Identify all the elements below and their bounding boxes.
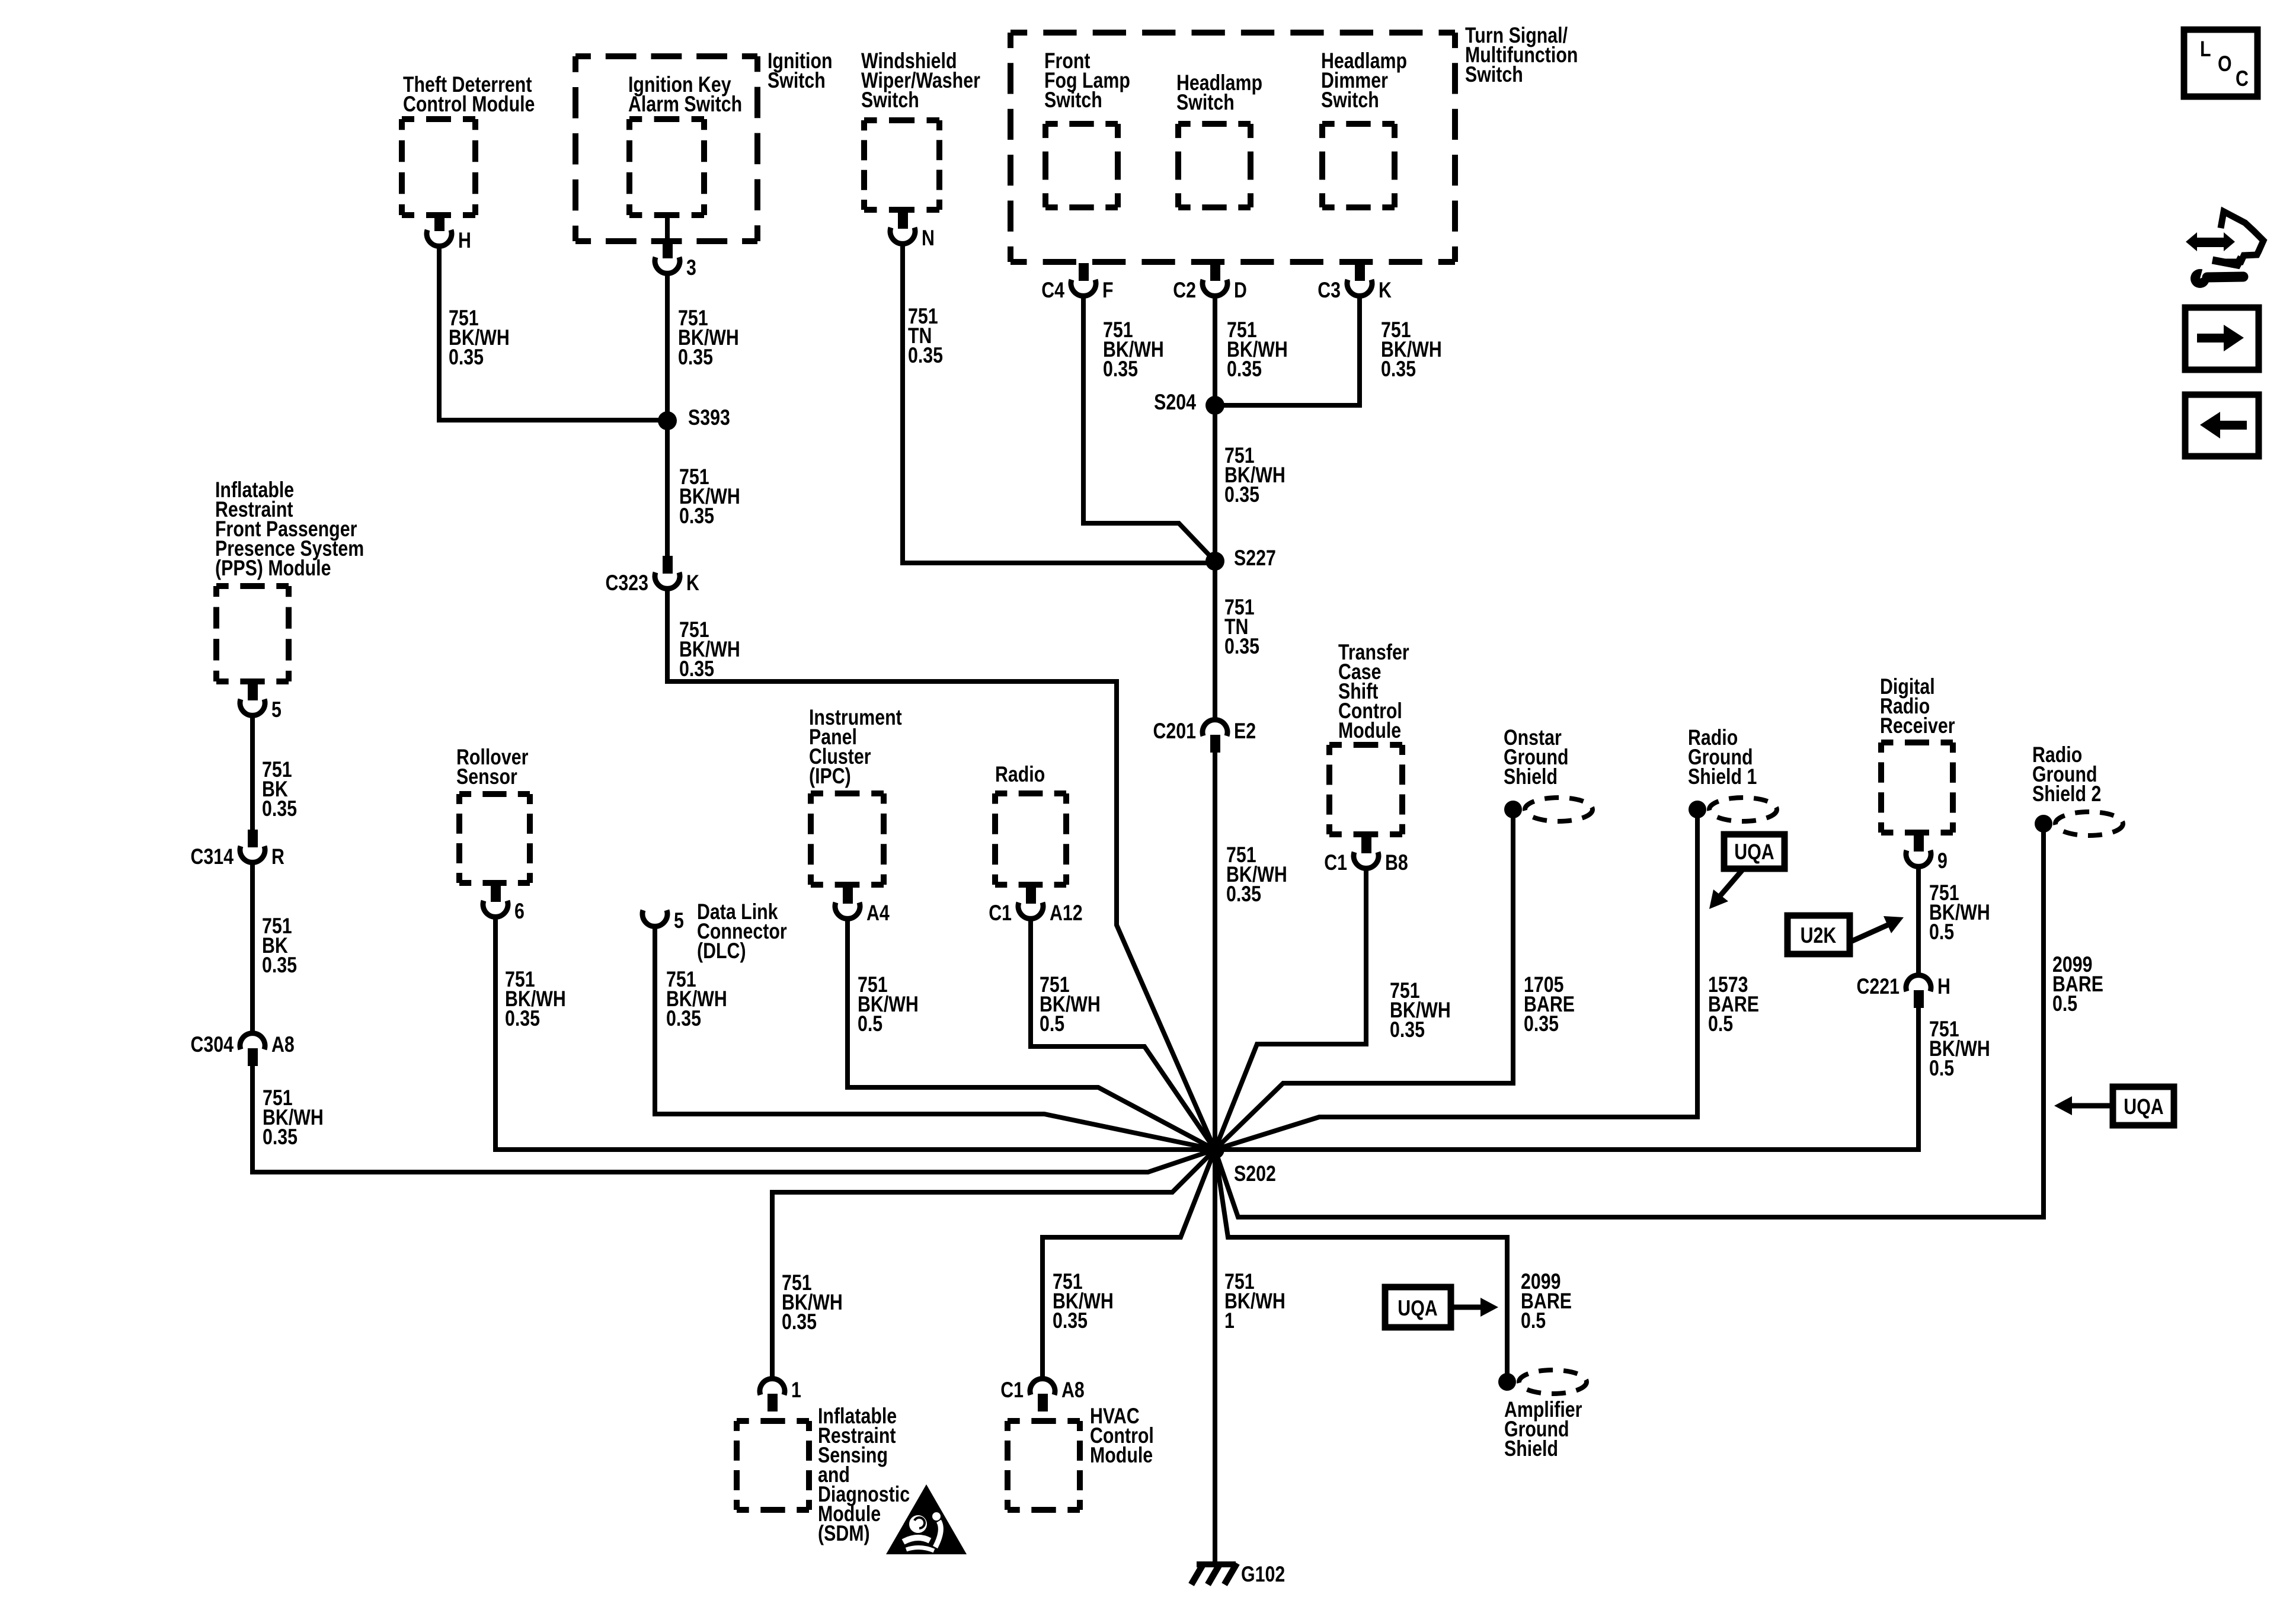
svg-text:S202: S202 <box>1234 1161 1276 1186</box>
svg-text:0.5: 0.5 <box>1708 1012 1733 1036</box>
svg-text:6: 6 <box>514 899 525 924</box>
svg-text:C4: C4 <box>1041 278 1064 303</box>
connector C1 pin A8 HVAC <box>1030 1379 1055 1395</box>
svg-text:Switch: Switch <box>1044 88 1102 113</box>
ground shield Onstar <box>1504 801 1522 818</box>
svg-text:C3: C3 <box>1318 278 1341 303</box>
svg-text:Switch: Switch <box>768 68 826 93</box>
wire C221 to S202 <box>1215 1006 1918 1150</box>
svg-text:C1: C1 <box>1324 850 1347 875</box>
svg-text:UQA: UQA <box>1398 1296 1437 1321</box>
svg-text:Switch: Switch <box>861 88 919 113</box>
svg-text:Shield: Shield <box>1504 764 1558 789</box>
svg-text:D: D <box>1234 278 1247 303</box>
svg-text:0.5: 0.5 <box>1929 920 1954 945</box>
svg-text:0.35: 0.35 <box>505 1006 540 1031</box>
svg-text:G102: G102 <box>1241 1562 1285 1587</box>
connector C201 pin E2 <box>1203 720 1227 736</box>
splice S202 <box>1205 1140 1224 1159</box>
wire transfer B8 to S202 <box>1215 869 1366 1150</box>
svg-text:A4: A4 <box>866 901 890 926</box>
svg-text:S204: S204 <box>1154 390 1196 415</box>
svg-text:K: K <box>1379 278 1392 303</box>
svg-text:(DLC): (DLC) <box>697 939 746 964</box>
svg-text:C323: C323 <box>605 571 648 596</box>
box Digital Radio Receiver <box>1881 742 1953 833</box>
svg-text:Switch: Switch <box>1321 88 1379 113</box>
svg-text:Shield 1: Shield 1 <box>1688 764 1757 789</box>
svg-text:Alarm Switch: Alarm Switch <box>628 92 742 117</box>
wire C201 to S202 <box>1213 751 1217 1150</box>
svg-text:0.35: 0.35 <box>1053 1308 1088 1333</box>
arrow U2K to DRR wire <box>1852 925 1888 941</box>
wire S202 to SDM <box>772 1150 1215 1379</box>
wire DLC to S202 <box>655 926 1215 1150</box>
box Headlamp Switch <box>1178 124 1251 207</box>
svg-text:B8: B8 <box>1385 850 1408 875</box>
callout UQA near radio ground shield 1 <box>1724 834 1785 869</box>
connector C2 pin D headlamp <box>1210 263 1220 281</box>
svg-text:0.5: 0.5 <box>1040 1012 1064 1036</box>
connector C221 pin H <box>1906 975 1931 991</box>
connector C323 pin K <box>663 556 673 574</box>
connector pin H theft module <box>434 213 445 231</box>
wire radio A12 to S202 <box>1031 919 1215 1150</box>
svg-text:A8: A8 <box>1061 1378 1085 1403</box>
svg-text:5: 5 <box>271 697 282 722</box>
box SDM <box>737 1421 809 1510</box>
svg-text:Radio: Radio <box>995 762 1045 787</box>
callout UQA near amplifier <box>1385 1287 1451 1327</box>
svg-text:9: 9 <box>1937 849 1948 873</box>
box Windshield Wiper/Washer Switch <box>864 120 939 210</box>
svg-text:C1: C1 <box>1000 1378 1024 1403</box>
svg-text:0.35: 0.35 <box>782 1310 817 1334</box>
wire DRR 9 to C221 <box>1916 867 1921 975</box>
splice S227 <box>1205 552 1224 571</box>
svg-text:U2K: U2K <box>1801 923 1837 948</box>
svg-text:0.35: 0.35 <box>1103 357 1138 382</box>
svg-text:H: H <box>1937 974 1950 999</box>
svg-text:0.35: 0.35 <box>679 657 714 681</box>
callout U2K <box>1787 916 1850 954</box>
svg-text:Module: Module <box>1338 718 1401 743</box>
svg-text:C221: C221 <box>1856 974 1900 999</box>
svg-text:0.35: 0.35 <box>1381 357 1416 382</box>
box PPS Module <box>216 586 289 681</box>
connector C314 pin R <box>248 830 258 847</box>
wire onstar shield to S202 <box>1215 818 1513 1150</box>
wire IPC A4 to S202 <box>848 919 1215 1150</box>
arrow UQA to radio ground shield 2 wire <box>2072 1103 2113 1109</box>
arrow UQA to amplifier wire <box>1451 1305 1480 1310</box>
ground shield Radio 2 <box>2035 815 2052 833</box>
box Instrument Panel Cluster <box>811 793 884 885</box>
svg-text:0.35: 0.35 <box>449 345 484 370</box>
wire theft H to S393 <box>439 247 667 420</box>
svg-text:Sensor: Sensor <box>456 764 517 789</box>
ground shield Amplifier <box>1498 1373 1516 1391</box>
box Turn Signal/Multifunction Switch outer <box>1011 33 1455 262</box>
svg-text:Shield 2: Shield 2 <box>2032 782 2101 806</box>
box Headlamp Dimmer Switch <box>1322 124 1395 207</box>
wire S202 to HVAC <box>1043 1150 1215 1379</box>
splice S204 <box>1205 396 1224 415</box>
svg-text:UQA: UQA <box>2124 1094 2163 1119</box>
box Front Fog Lamp Switch <box>1045 124 1118 207</box>
legend box arrow left <box>2185 395 2259 456</box>
wire rollover 6 to S202 <box>495 917 1215 1150</box>
svg-text:Switch: Switch <box>1465 62 1523 87</box>
svg-text:0.35: 0.35 <box>666 1006 701 1031</box>
svg-text:(IPC): (IPC) <box>809 764 851 789</box>
svg-text:H: H <box>458 228 471 253</box>
box Rollover Sensor <box>459 794 530 883</box>
wire dimmer K to S204 <box>1215 296 1360 405</box>
callout UQA near radio ground shield 2 <box>2113 1087 2174 1125</box>
wire S202 to amplifier shield <box>1215 1150 1507 1374</box>
connector C304 pin A8 <box>240 1033 265 1049</box>
svg-text:0.35: 0.35 <box>262 796 297 821</box>
box HVAC Control Module <box>1008 1421 1080 1510</box>
wire S202 to G102 <box>1213 1150 1217 1564</box>
connector pin 6 rollover <box>491 884 501 902</box>
svg-text:5: 5 <box>674 908 684 933</box>
connector C1 pin B8 transfer case <box>1361 836 1371 853</box>
svg-text:0.35: 0.35 <box>1227 357 1262 382</box>
ground G102 <box>1197 1561 1236 1567</box>
svg-text:C1: C1 <box>989 901 1012 926</box>
svg-text:K: K <box>686 571 699 596</box>
wire C304 to S202 <box>252 1064 1215 1172</box>
svg-text:1: 1 <box>1224 1308 1235 1333</box>
svg-text:L: L <box>2200 37 2211 62</box>
wire C323 to S202 via corner <box>667 589 1215 1150</box>
wire S204 to S227 <box>1213 405 1217 561</box>
wire radio ground shield 1 to S202 <box>1215 818 1697 1150</box>
box Ignition Switch outer <box>575 56 757 241</box>
svg-text:Control Module: Control Module <box>403 92 535 117</box>
svg-text:0.35: 0.35 <box>908 343 943 368</box>
box Radio <box>995 793 1066 885</box>
svg-text:0.35: 0.35 <box>1226 882 1261 907</box>
box Ignition Key Alarm Switch <box>629 119 704 215</box>
svg-text:0.35: 0.35 <box>1390 1017 1425 1042</box>
connector pin 9 DRR <box>1914 834 1924 852</box>
legend box arrow right <box>2185 308 2259 370</box>
wire ignition inner box to pin 3 <box>665 215 670 243</box>
box Theft Deterrent Control Module <box>402 119 475 215</box>
arrow UQA to radio ground shield 1 wire <box>1721 870 1742 895</box>
connector pin 1 SDM <box>760 1379 785 1395</box>
svg-text:3: 3 <box>686 255 696 280</box>
svg-text:0.35: 0.35 <box>1224 482 1259 507</box>
svg-text:A12: A12 <box>1050 901 1083 926</box>
legend box LOC <box>2184 30 2257 97</box>
svg-text:C: C <box>2236 66 2249 91</box>
connector C3 pin K dimmer <box>1355 263 1365 281</box>
svg-text:C314: C314 <box>190 844 234 869</box>
svg-text:UQA: UQA <box>1734 840 1774 865</box>
wire S227 to C201 <box>1213 561 1217 719</box>
svg-text:N: N <box>922 226 935 251</box>
svg-text:A8: A8 <box>271 1032 295 1057</box>
wire wiper N to S227 <box>903 244 1215 563</box>
svg-text:(SDM): (SDM) <box>818 1521 870 1546</box>
airbag warning symbol <box>886 1484 967 1554</box>
wire headlamp D to S204 <box>1213 296 1217 405</box>
svg-text:1: 1 <box>791 1378 801 1403</box>
svg-text:0.35: 0.35 <box>679 504 714 529</box>
svg-text:0.35: 0.35 <box>1224 634 1259 659</box>
connector pin 5 DLC <box>642 910 667 926</box>
svg-text:S227: S227 <box>1234 546 1276 571</box>
connector pin 3 ignition switch <box>663 241 673 258</box>
svg-text:S393: S393 <box>688 405 730 430</box>
connector pin A4 IPC <box>843 886 853 904</box>
box Transfer Case Shift Control Module <box>1329 745 1402 834</box>
svg-text:(PPS) Module: (PPS) Module <box>215 556 331 581</box>
svg-text:Shield: Shield <box>1504 1436 1558 1461</box>
svg-text:0.5: 0.5 <box>858 1012 882 1036</box>
connector C1 pin A12 radio <box>1026 886 1036 904</box>
svg-text:0.5: 0.5 <box>1521 1308 1546 1333</box>
svg-text:0.5: 0.5 <box>2052 991 2077 1016</box>
svg-text:0.35: 0.35 <box>263 1125 298 1150</box>
wire front fog F to S227 <box>1083 296 1215 561</box>
connector pin N wiper switch <box>898 211 908 229</box>
svg-text:E2: E2 <box>1234 719 1256 744</box>
svg-text:0.35: 0.35 <box>678 345 713 370</box>
legend icon data link (head outline with double arrow and wrench) <box>2221 212 2263 262</box>
svg-text:C2: C2 <box>1173 278 1196 303</box>
svg-text:O: O <box>2218 52 2232 76</box>
splice S393 <box>658 411 677 430</box>
svg-text:0.35: 0.35 <box>1524 1012 1559 1036</box>
svg-text:C304: C304 <box>190 1032 234 1057</box>
svg-text:R: R <box>271 844 284 869</box>
svg-text:F: F <box>1102 278 1114 303</box>
svg-text:Switch: Switch <box>1176 90 1235 115</box>
svg-text:0.35: 0.35 <box>262 953 297 978</box>
wire radio ground shield 2 to S202 <box>1215 832 2044 1217</box>
ground shield Radio 1 <box>1689 801 1706 818</box>
svg-text:Receiver: Receiver <box>1880 713 1955 738</box>
svg-text:Module: Module <box>1090 1443 1153 1468</box>
wire PPS 5 to C314 <box>250 716 255 831</box>
connector pin 5 PPS <box>248 683 258 700</box>
connector C4 pin F front fog <box>1079 263 1089 281</box>
svg-text:C201: C201 <box>1153 719 1196 744</box>
wire pin 3 to S393 to C323 <box>665 274 670 557</box>
svg-text:0.5: 0.5 <box>1929 1056 1954 1081</box>
wire C314 to C304 <box>250 863 255 1032</box>
